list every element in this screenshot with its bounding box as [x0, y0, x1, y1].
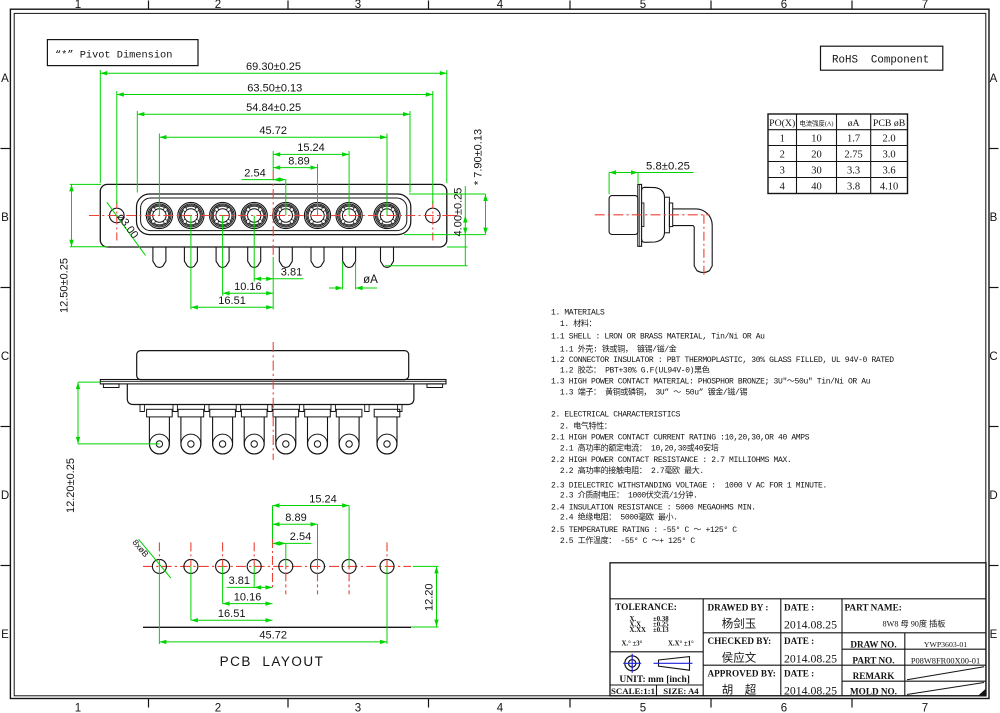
dimension 69.30±0.25	[100, 72, 447, 74]
dimension 16.51	[191, 306, 273, 308]
svg-text:2.3 介质耐电压： 1000伏交流/1分钟.: 2.3 介质耐电压： 1000伏交流/1分钟.	[551, 490, 697, 501]
dimension 2.54	[242, 179, 286, 181]
side view: contact holder 7	[336, 409, 362, 417]
side view: contact holder 3	[210, 409, 236, 417]
top view: horizontal centerline	[89, 215, 457, 217]
top view: solder pin 8	[381, 247, 394, 267]
pcb layout: vertical centerline	[272, 539, 274, 589]
top view: power contact 4	[241, 202, 267, 228]
svg-text:SCALE:1:1: SCALE:1:1	[611, 686, 655, 696]
svg-text:15.24: 15.24	[309, 493, 337, 505]
side view: contact barrel 8	[377, 417, 397, 454]
svg-text:2. 电气特性：: 2. 电气特性：	[551, 420, 612, 431]
side view: contact barrel 4	[244, 417, 264, 454]
top view: power contact 5	[273, 202, 299, 228]
svg-text:* 7.90±0.13: * 7.90±0.13	[473, 129, 485, 185]
svg-text:PART NAME:: PART NAME:	[845, 603, 902, 613]
svg-text:C: C	[1, 351, 9, 363]
svg-text:2.54: 2.54	[244, 168, 265, 180]
materials and electrical characteristics notes	[551, 308, 894, 545]
side view: flange plate	[100, 380, 446, 384]
svg-text:30: 30	[811, 166, 822, 177]
pcb layout extension lines	[272, 506, 274, 540]
leader ø3.00 for mounting hole	[107, 202, 146, 255]
drawn/checked/approved cells	[708, 603, 838, 698]
top view: power contact 8	[374, 202, 400, 228]
top view: left mounting hole centerline	[116, 201, 118, 241]
cone symbol	[654, 657, 693, 671]
extension lines under top view pins	[253, 216, 255, 282]
top view: solder pin 6	[311, 247, 324, 267]
contact side view: tapered body	[642, 187, 665, 242]
svg-text:DATE :: DATE :	[784, 668, 814, 678]
svg-text:DRAWED BY :: DRAWED BY :	[708, 603, 769, 613]
svg-text:1.3 端子： 黄铜或磷铜， 3U” ～ 50u” 镀金/镃: 1.3 端子： 黄铜或磷铜， 3U” ～ 50u” 镀金/镃/锡	[551, 386, 747, 397]
side view: vertical centerline	[272, 342, 274, 460]
svg-text:D: D	[989, 490, 997, 502]
dimension 4.00±0.25 (vertical)	[464, 186, 466, 266]
svg-text:X.X° ±1°: X.X° ±1°	[668, 641, 694, 648]
side view: insulator lip nubs	[140, 405, 144, 412]
top view: power contact 3	[210, 202, 236, 228]
svg-text:12.20: 12.20	[424, 583, 436, 611]
side view: contact holder 5	[273, 409, 299, 417]
pcb dimension 2.54	[273, 542, 312, 544]
svg-text:3.8: 3.8	[847, 181, 860, 192]
title block	[610, 563, 986, 696]
side view: contact barrel 3	[213, 417, 233, 454]
svg-text:MOLD NO.: MOLD NO.	[850, 687, 897, 697]
svg-text:4.10: 4.10	[880, 181, 898, 192]
svg-text:1. MATERIALS: 1. MATERIALS	[551, 308, 605, 317]
svg-text:DATE :: DATE :	[784, 636, 814, 646]
svg-text:4.00±0.25: 4.00±0.25	[453, 188, 465, 237]
pcb dimension 16.51	[191, 619, 273, 621]
remark cell diagonal	[907, 667, 984, 680]
top view: power contact 6	[304, 202, 330, 228]
svg-text:15.24: 15.24	[297, 142, 325, 154]
side view: contact barrel 6	[308, 417, 328, 454]
svg-text:12.20±0.25: 12.20±0.25	[65, 458, 77, 513]
contact side view: socket barrel	[609, 196, 638, 235]
svg-text:PCB LAYOUT: PCB LAYOUT	[220, 654, 325, 669]
svg-text:3.3: 3.3	[847, 166, 860, 177]
svg-text:DRAW NO.: DRAW NO.	[850, 640, 896, 650]
svg-text:B: B	[1, 212, 9, 224]
border row ticks left/right	[1, 148, 11, 150]
svg-text:UNIT: mm [inch]: UNIT: mm [inch]	[619, 675, 690, 685]
svg-text:YWP3603-01: YWP3603-01	[924, 640, 967, 649]
side view: contact holder 2	[178, 409, 204, 417]
pcb layout: horizontal centerline	[143, 565, 411, 567]
dimension 5.8±0.25	[609, 172, 694, 174]
svg-text:2.75: 2.75	[844, 150, 862, 161]
svg-text:40: 40	[811, 181, 822, 192]
svg-text:54.84±0.25: 54.84±0.25	[246, 102, 301, 114]
pcb layout: board edge line	[143, 626, 411, 628]
dimension 8.89	[273, 167, 317, 169]
contact rating table	[768, 114, 908, 194]
svg-text:8.89: 8.89	[288, 155, 309, 167]
dimension øA pin diameter	[342, 262, 344, 290]
svg-text:C: C	[989, 351, 997, 363]
dimension 12.20±0.25 (side view)	[78, 381, 101, 383]
svg-text:1.2 CONNECTOR INSULATOR : PBT: 1.2 CONNECTOR INSULATOR : PBT THERMOPLAS…	[551, 356, 894, 365]
svg-text:1. 材料：: 1. 材料：	[551, 318, 596, 329]
svg-text:6: 6	[781, 0, 787, 11]
svg-text:69.30±0.25: 69.30±0.25	[246, 61, 301, 73]
svg-text:胡 超: 胡 超	[722, 683, 757, 697]
svg-text:4: 4	[497, 703, 504, 713]
svg-text:10.16: 10.16	[234, 281, 262, 293]
top view: right mounting hole centerline	[432, 201, 434, 241]
contact side view: step 1	[665, 197, 670, 233]
svg-text:电流强度(A): 电流强度(A)	[800, 119, 834, 128]
svg-text:“*” Pivot Dimension: “*” Pivot Dimension	[55, 50, 172, 62]
side view: flange right tab	[427, 384, 443, 388]
svg-text:5: 5	[640, 0, 646, 11]
svg-text:3.0: 3.0	[883, 150, 896, 161]
svg-text:1.1 外壳: 铁或铜， 镀锡/镃/金: 1.1 外壳: 铁或铜， 镀锡/镃/金	[551, 344, 677, 355]
svg-text:4: 4	[497, 0, 504, 11]
dimension 63.50±0.13	[117, 94, 433, 96]
pcb dimension 15.24	[273, 505, 350, 507]
svg-text:øA: øA	[363, 274, 378, 286]
svg-text:2.5 TEMPERATURE RATING : -55°: 2.5 TEMPERATURE RATING : -55° C ～ +125° …	[551, 526, 737, 535]
dimension 3.81	[254, 278, 303, 280]
svg-text:TOLERANCE:: TOLERANCE:	[615, 603, 677, 613]
dimension 12.50±0.25 (vertical, left)	[70, 183, 101, 185]
tolerance column texts	[615, 603, 694, 648]
svg-text:2014.08.25: 2014.08.25	[784, 684, 837, 698]
contact side view: step 2	[669, 203, 672, 227]
pcb layout: hole 7	[342, 559, 356, 573]
svg-text:X.XX: X.XX	[630, 627, 647, 634]
side view: contact holder 4	[241, 409, 267, 417]
svg-text:2: 2	[780, 150, 785, 161]
svg-text:5.8±0.25: 5.8±0.25	[646, 160, 690, 172]
border column ticks top/bottom	[148, 1, 150, 10]
top view: right mounting hole	[426, 208, 441, 223]
svg-text:1: 1	[780, 134, 785, 145]
svg-text:PART NO.: PART NO.	[852, 656, 894, 666]
svg-text:2.2 高功率的接触电阻： 2.7毫欧 最大.: 2.2 高功率的接触电阻： 2.7毫欧 最大.	[551, 465, 704, 476]
top view: power contact 1	[146, 202, 172, 228]
extension lines right of top view	[409, 193, 486, 195]
note box RoHS Component	[821, 46, 943, 70]
top view: power contact 7	[336, 202, 362, 228]
svg-text:APPROVED BY:: APPROVED BY:	[708, 668, 776, 678]
side view: flange left tab	[103, 384, 119, 388]
svg-text:3: 3	[355, 703, 361, 713]
top view: connector shell flange outline	[100, 184, 447, 247]
svg-text:PCB øB: PCB øB	[873, 118, 906, 129]
svg-text:2.54: 2.54	[290, 531, 311, 543]
dimension * 7.90±0.13 (vertical)	[485, 194, 487, 235]
svg-text:1.7: 1.7	[847, 134, 860, 145]
top view: vertical centerline	[272, 171, 274, 258]
svg-text:8.89: 8.89	[285, 512, 306, 524]
svg-text:2. ELECTRICAL CHARACTERISTICS: 2. ELECTRICAL CHARACTERISTICS	[551, 410, 681, 419]
corner triangle	[978, 689, 986, 696]
side view: contact barrel 2	[181, 417, 201, 454]
svg-text:E: E	[990, 629, 998, 641]
top view: D-shell opening outer outline	[137, 194, 411, 235]
svg-text:7: 7	[922, 0, 928, 11]
contact side view: right-angle pin	[673, 209, 713, 273]
svg-text:20: 20	[811, 150, 822, 161]
svg-text:10: 10	[811, 134, 822, 145]
side view: mating shell top	[137, 351, 409, 380]
svg-text:RoHS Component: RoHS Component	[832, 55, 929, 67]
pcb leader 8xøB	[139, 539, 171, 578]
svg-text:16.51: 16.51	[218, 608, 246, 620]
dimension 45.72	[159, 136, 387, 138]
svg-text:10.16: 10.16	[234, 591, 262, 603]
contact side view: rear insert	[642, 203, 644, 227]
side view: insulator body	[127, 384, 414, 405]
top view: D-shell opening inner outline	[141, 198, 407, 231]
svg-text:2.0: 2.0	[883, 134, 896, 145]
contact side view: flange disc	[638, 184, 642, 246]
svg-text:1.2 胶芯： PBT+30% G.F(UL94V-0)黑色: 1.2 胶芯： PBT+30% G.F(UL94V-0)黑色	[551, 365, 710, 376]
top view: solder pin 2	[184, 247, 197, 267]
svg-text:4: 4	[780, 181, 786, 192]
pcb dimension 10.16	[223, 603, 273, 605]
dimension 10.16	[223, 292, 274, 294]
projection symbol	[623, 654, 641, 673]
svg-text:3: 3	[355, 0, 361, 11]
side view: contact holder 6	[305, 409, 331, 417]
pcb layout: hole 3	[216, 559, 230, 573]
svg-text:1: 1	[75, 0, 81, 11]
pcb dimension 3.81	[227, 586, 273, 588]
svg-text:3: 3	[780, 166, 785, 177]
contact side view: horizontal centerline	[595, 214, 710, 216]
svg-text:REMARK: REMARK	[853, 671, 896, 681]
svg-text:侯应文: 侯应文	[722, 651, 757, 665]
svg-text:E: E	[1, 629, 9, 641]
svg-text:PO(X): PO(X)	[769, 118, 795, 129]
svg-text:3.81: 3.81	[281, 267, 302, 279]
svg-text:2014.08.25: 2014.08.25	[784, 652, 837, 666]
top view: solder pin 3	[216, 247, 229, 267]
svg-text:12.50±0.25: 12.50±0.25	[59, 258, 71, 313]
svg-text:2.1 HIGH POWER CONTACT CURRENT: 2.1 HIGH POWER CONTACT CURRENT RATING :1…	[551, 434, 810, 443]
svg-text:D: D	[1, 490, 9, 502]
pcb layout: hole 1	[152, 559, 166, 573]
svg-text:P08W8FR00X00-01: P08W8FR00X00-01	[911, 656, 980, 665]
svg-text:6: 6	[781, 703, 787, 713]
svg-text:CHECKED BY:: CHECKED BY:	[708, 636, 772, 646]
svg-text:A: A	[1, 73, 9, 85]
pcb layout: hole 5	[279, 559, 293, 573]
pcb layout: hole 6	[311, 559, 325, 573]
svg-text:øA: øA	[848, 118, 860, 129]
svg-text:B: B	[990, 212, 998, 224]
svg-text:2.4 INSULATION RESISTANCE : 50: 2.4 INSULATION RESISTANCE : 5000 MEGAOHM…	[551, 503, 756, 512]
pcb layout: hole 2	[184, 559, 198, 573]
svg-text:8W8 母 90度 插板: 8W8 母 90度 插板	[883, 619, 946, 629]
svg-text:5: 5	[640, 703, 646, 713]
contact side view: vertical centerline	[703, 215, 705, 276]
svg-text:1: 1	[75, 703, 81, 713]
svg-text:2: 2	[215, 703, 221, 713]
svg-text:1.1 SHELL : LRON OR BRASS MATE: 1.1 SHELL : LRON OR BRASS MATERIAL, Tin/…	[551, 332, 765, 341]
extension lines above top view	[99, 70, 101, 183]
svg-text:1.3 HIGH POWER CONTACT MATERIA: 1.3 HIGH POWER CONTACT MATERIAL: PHOSPHO…	[551, 378, 871, 387]
side view: contact holder 8	[374, 409, 400, 417]
svg-text:2.1 高功率的额定电流： 10,20,30或40安培: 2.1 高功率的额定电流： 10,20,30或40安培	[551, 442, 719, 453]
top view: solder pin 1	[153, 247, 166, 267]
part name cells	[845, 603, 981, 697]
svg-text:7: 7	[922, 703, 928, 713]
svg-text:DATE :: DATE :	[784, 603, 814, 613]
dimension 15.24	[273, 153, 349, 155]
top view: solder pin 7	[343, 247, 356, 267]
svg-text:SIZE: A4: SIZE: A4	[663, 686, 699, 696]
top view: left mounting hole	[110, 208, 125, 223]
dimension 54.84±0.25	[137, 113, 410, 115]
svg-text:3.81: 3.81	[229, 575, 250, 587]
svg-text:2.2 HIGH POWER CONTACT RESISTA: 2.2 HIGH POWER CONTACT RESISTANCE : 2.7 …	[551, 456, 791, 465]
pcb layout: hole 4	[247, 559, 261, 573]
top view: power contact 2	[178, 202, 204, 228]
side view: contact barrel 5	[276, 417, 296, 454]
note box "*" Pivot Dimension	[47, 40, 198, 66]
side view: contact barrel 7	[339, 417, 359, 454]
pcb layout: hole centerlines	[158, 542, 160, 566]
svg-text:16.51: 16.51	[218, 295, 246, 307]
svg-text:2.5 工作温度： -55° C ～+ 125° C: 2.5 工作温度： -55° C ～+ 125° C	[551, 535, 695, 546]
pcb dimension 45.72	[159, 641, 387, 643]
pcb dimension 12.20 (vertical)	[413, 565, 439, 567]
svg-text:2014.08.25: 2014.08.25	[784, 618, 837, 632]
pcb layout: hole 8	[380, 559, 394, 573]
side view: contact barrel 1	[149, 417, 169, 454]
svg-text:45.72: 45.72	[259, 125, 287, 137]
svg-text:2.3 DIELECTRIC WITHSTANDING VO: 2.3 DIELECTRIC WITHSTANDING VOLTAGE : 10…	[551, 481, 827, 490]
svg-text:A: A	[990, 73, 998, 85]
svg-text:±0.13: ±0.13	[653, 627, 669, 634]
svg-text:45.72: 45.72	[259, 630, 287, 642]
top view: solder pin 5	[279, 247, 292, 267]
svg-text:63.50±0.13: 63.50±0.13	[247, 82, 302, 94]
mold cell diagonal	[907, 683, 984, 695]
side view: contact holder 1	[147, 409, 173, 417]
svg-text:杨剑玉: 杨剑玉	[722, 617, 757, 631]
top view: solder pin 4	[248, 247, 261, 267]
svg-text:X.° ±3°: X.° ±3°	[622, 641, 643, 648]
svg-text:2: 2	[215, 0, 221, 11]
pcb dimension 8.89	[273, 523, 318, 525]
svg-text:2.4 绝缘电阻： 5000毫欧 最小.: 2.4 绝缘电阻： 5000毫欧 最小.	[551, 512, 678, 523]
svg-text:3.6: 3.6	[883, 166, 896, 177]
